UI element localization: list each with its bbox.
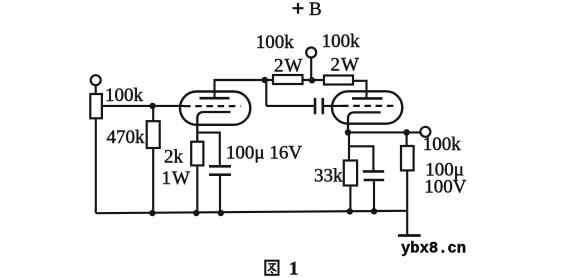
- tube V2 grid (dashed): [342, 105, 394, 107]
- wire 33k bypass cap to ground rail: [373, 180, 375, 211]
- wire 100k down to ground: [406, 170, 408, 235]
- wire bypass cap to ground rail: [219, 175, 221, 214]
- tube V2 plate: [352, 97, 383, 100]
- output terminal: [420, 127, 430, 137]
- ground symbol: [398, 234, 421, 237]
- svg-text:1W: 1W: [162, 168, 191, 189]
- junction grid node: [149, 103, 155, 109]
- tube V1 grid (dashed): [184, 105, 241, 107]
- tube V2 envelope: [332, 91, 402, 123]
- capacitor 33k bypass: [363, 171, 384, 180]
- svg-text:100k: 100k: [256, 32, 294, 53]
- ground rail: [96, 211, 407, 213]
- wire 2k to ground rail: [196, 165, 198, 213]
- wire cathode node down to 33k: [348, 132, 350, 160]
- svg-text:100k: 100k: [105, 85, 144, 106]
- wire input resistor to V1 grid: [102, 105, 184, 107]
- wire R2 to V2 plate: [353, 81, 367, 99]
- svg-text:2k: 2k: [164, 147, 184, 168]
- svg-text:1: 1: [289, 259, 299, 278]
- svg-text:100k: 100k: [322, 31, 361, 52]
- wire plate node down to coupling cap: [266, 80, 314, 106]
- tube V1 cathode: [197, 112, 230, 142]
- wire 470k to ground rail: [152, 148, 154, 213]
- junction output node: [403, 129, 409, 135]
- resistor R2 100k 2W: [324, 76, 353, 85]
- svg-text:100μ 16V: 100μ 16V: [226, 143, 302, 164]
- svg-text:100k: 100k: [423, 134, 462, 155]
- svg-text:B: B: [309, 0, 322, 20]
- svg-text:2W: 2W: [274, 56, 303, 77]
- caption figure glyph: [265, 261, 278, 275]
- junction rail at 100u cap: [218, 210, 224, 216]
- wire grid node to 470k: [152, 106, 154, 121]
- input terminal: [91, 75, 101, 85]
- svg-text:33k: 33k: [314, 166, 343, 187]
- tube V1 envelope: [180, 92, 250, 125]
- resistor 33k: [344, 161, 357, 186]
- wire branch to 33k bypass cap: [349, 146, 373, 171]
- power terminal B+: [306, 48, 316, 58]
- wire bus between R1 and R2: [303, 79, 325, 81]
- junction rail at 470k: [149, 210, 155, 216]
- junction rail at 33k bypass cap: [371, 208, 377, 214]
- capacitor 100u 16V cathode bypass: [209, 166, 231, 174]
- junction rail at 33k: [347, 208, 353, 214]
- wire 33k to ground rail: [349, 186, 351, 212]
- resistor 100k input: [90, 94, 102, 118]
- junction rail at 2k: [193, 210, 199, 216]
- wire top bus left segment: [215, 79, 274, 81]
- capacitor C2 coupling: [315, 98, 323, 114]
- junction V2 cathode node: [345, 129, 351, 135]
- wire input resistor bottom to ground rail: [95, 118, 97, 213]
- wire V1 cathode branch to bypass cap: [197, 133, 220, 167]
- tube V1 plate: [200, 97, 230, 100]
- junction at B+ bus: [309, 77, 315, 83]
- svg-text:ybx8.cn: ybx8.cn: [401, 240, 466, 258]
- resistor R1 100k 2W: [273, 75, 303, 84]
- wire coupling cap to V2 grid: [323, 105, 342, 107]
- svg-text:100V: 100V: [424, 177, 467, 198]
- wire B+ lead down to bus: [310, 58, 312, 80]
- resistor 470k: [147, 121, 160, 148]
- wire cathode node to output: [348, 131, 420, 133]
- wire input terminal to resistor: [95, 85, 97, 94]
- svg-text:2W: 2W: [331, 55, 360, 76]
- label +B: [293, 3, 304, 14]
- junction plate node V1: [262, 77, 268, 83]
- resistor 2k 1W: [191, 142, 203, 166]
- wire output node down to 100k: [406, 132, 408, 146]
- wire V1 plate lead: [213, 79, 215, 98]
- svg-text:470k: 470k: [107, 127, 146, 148]
- resistor 100k output: [401, 146, 414, 170]
- tube V2 cathode: [348, 112, 381, 132]
